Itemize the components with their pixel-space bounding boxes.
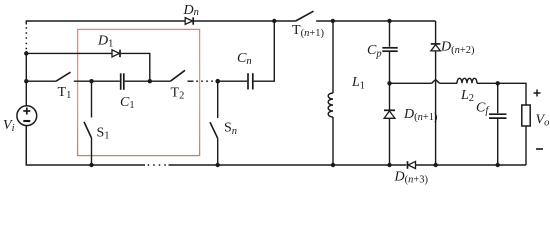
switch T(n+1) <box>296 11 314 21</box>
node bottom L1 <box>331 163 335 167</box>
node left rail / T1 row <box>24 79 28 83</box>
wire top rail right segment <box>316 20 435 22</box>
diode D(n+2) <box>431 44 441 51</box>
wire dotted continuation top-left <box>25 27 27 49</box>
node top rail / Cp branch <box>387 19 391 23</box>
voltage source Vi <box>17 106 37 126</box>
switch S1 <box>84 81 92 165</box>
node bottom S1 <box>89 163 93 167</box>
wire Cn to top rail <box>254 21 275 81</box>
node D1/C1/T2 junction <box>148 79 152 83</box>
wire CF branch upper <box>497 83 499 113</box>
wire top rail mid segment <box>194 20 296 22</box>
wire bottom rail mid <box>169 164 407 166</box>
wire C1 to T2 <box>125 80 171 82</box>
wire bottom rail left <box>26 125 145 165</box>
wire D1 row <box>26 52 112 54</box>
node S1 tap <box>89 79 93 83</box>
diode D(n+3) <box>408 161 416 169</box>
label + output <box>534 90 541 97</box>
wire D(n+2) to bottom rail <box>435 51 437 165</box>
inductor L2 <box>457 78 477 83</box>
diode Dn <box>185 17 193 24</box>
node top rail / Cn branch <box>272 19 276 23</box>
switch Sn <box>210 81 218 165</box>
wire D1 to T2-row corner <box>121 53 150 81</box>
wire output rail with crossover hop <box>390 80 458 84</box>
switch T1 <box>56 72 71 81</box>
label - output <box>536 148 543 150</box>
load resistor <box>522 105 530 126</box>
diode D(n+1) <box>384 110 395 118</box>
wire source to bottom rail <box>25 126 27 165</box>
wire dotted continuation T2 row <box>196 80 213 82</box>
wire left rail <box>25 51 27 106</box>
capacitor CF <box>489 114 507 118</box>
wire top rail left segment <box>26 21 185 25</box>
node Cp / D(n+1) / L2 rail <box>387 81 391 85</box>
wire L2 to load corner <box>477 83 526 105</box>
wire bottom rail right <box>416 164 527 166</box>
wire T2 right contact <box>188 80 194 82</box>
node Sn tap <box>215 79 220 84</box>
switch T2 <box>170 70 185 81</box>
wire load to bottom rail <box>525 126 527 165</box>
capacitor C1 <box>121 73 124 90</box>
wire T1 row from left rail <box>26 80 56 82</box>
node bottom Sn <box>216 163 220 167</box>
capacitor Cp <box>382 48 397 51</box>
wire dotted continuation bottom rail <box>148 164 166 166</box>
wire Sn node to Cn <box>218 80 248 82</box>
wire Cp to output node <box>389 52 391 110</box>
node bottom CF <box>496 163 500 167</box>
capacitor Cn <box>248 73 253 89</box>
node left rail / D1 row <box>24 51 28 55</box>
node bottom D(n+1) <box>387 163 391 167</box>
wire T1 contact to C1 <box>74 80 120 82</box>
wire D(n+2) branch upper <box>435 21 437 43</box>
wire Cp branch upper <box>389 21 391 47</box>
inductor L1 <box>328 21 333 165</box>
node top rail / L1 branch <box>331 19 335 23</box>
wire CF to bottom rail <box>497 119 499 165</box>
wire D(n+1) to bottom rail <box>389 118 391 165</box>
node CF tap <box>496 81 500 85</box>
node bottom D(n+2) branch <box>434 163 438 167</box>
cell boundary highlight box <box>78 29 200 155</box>
diode D1 <box>112 50 120 58</box>
